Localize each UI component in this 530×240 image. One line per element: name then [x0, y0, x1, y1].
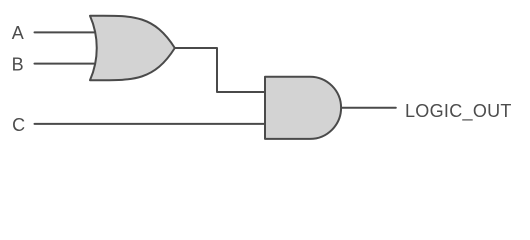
svg-text:A: A [12, 23, 24, 43]
svg-text:LOGIC_OUT: LOGIC_OUT [405, 101, 512, 122]
and-gate U2 [265, 77, 341, 139]
svg-text:B: B [12, 55, 24, 75]
wire input C [35, 123, 266, 125]
wire input A [35, 31, 101, 33]
svg-text:C: C [12, 115, 25, 135]
wire OR output to AND input (jog) [175, 48, 265, 92]
wire input B [35, 63, 101, 65]
or-gate U1 [90, 16, 175, 81]
wire AND output [341, 107, 396, 109]
